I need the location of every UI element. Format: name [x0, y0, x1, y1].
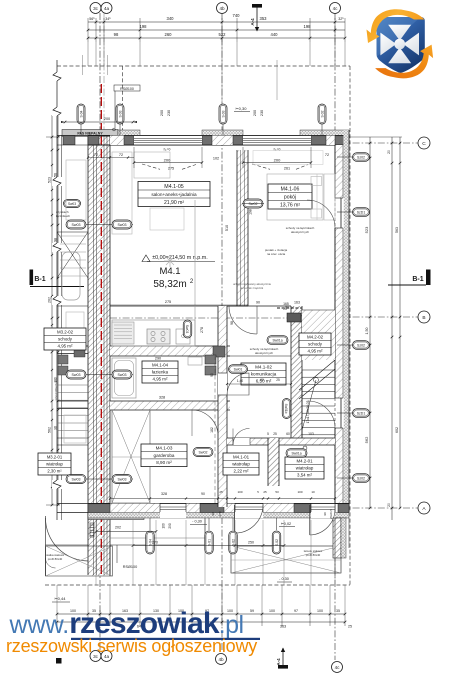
svg-text:98: 98 — [114, 32, 119, 37]
extension lines plan->top chain — [87, 42, 89, 66]
wall above wiatrolap y438-445 — [227, 438, 335, 445]
svg-text:S-04: S-04 — [79, 110, 83, 117]
svg-text:profil 80x40: profil 80x40 — [48, 557, 63, 561]
svg-text:wiatrołap: wiatrołap — [296, 465, 314, 470]
room box M4.2-02 schody — [299, 333, 331, 355]
axis bubble C right — [418, 137, 430, 149]
svg-text:4c: 4c — [335, 665, 341, 670]
svg-text:102: 102 — [213, 157, 219, 161]
svg-text:270: 270 — [218, 511, 222, 516]
svg-text:200: 200 — [274, 158, 281, 163]
svg-text:pokój: pokój — [284, 194, 296, 200]
top dimension chain lines — [88, 21, 345, 23]
extension lines plan->bottom chain — [56, 585, 58, 610]
stairs diagonal rails — [299, 360, 335, 390]
svg-text:56⁵: 56⁵ — [89, 17, 95, 21]
svg-text:1,50: 1,50 — [365, 328, 369, 335]
svg-text:S-03: S-03 — [221, 110, 225, 117]
door arc komunikacja->wiatrolap — [233, 429, 250, 446]
svg-text:163: 163 — [294, 301, 300, 305]
dashed landing edge — [277, 307, 302, 309]
svg-text:17x17,88x26,03: 17x17,88x26,03 — [54, 379, 58, 401]
terrace divider wall right — [333, 518, 341, 558]
svg-text:S-02: S-02 — [231, 539, 235, 546]
room box M4.1-02 komunikacja — [241, 363, 286, 385]
svg-text:4c: 4c — [333, 6, 339, 11]
bottom wall pillars — [88, 504, 110, 513]
fridge — [112, 322, 134, 344]
left unit furniture light — [66, 160, 86, 220]
axis bubble 3c bottom — [90, 651, 101, 662]
svg-text:M4.1-05: M4.1-05 — [164, 184, 183, 190]
svg-text:łazienka: łazienka — [152, 369, 169, 374]
svg-text:M4.2-02: M4.2-02 — [307, 334, 324, 339]
bottom wall stipple strip outside — [88, 513, 349, 519]
svg-text:⌲0,44: ⌲0,44 — [55, 596, 67, 601]
terrace right with X — [231, 546, 341, 573]
svg-text:90: 90 — [323, 512, 327, 516]
svg-text:4,95 m²: 4,95 m² — [308, 348, 323, 353]
svg-text:M4.1-06: M4.1-06 — [281, 186, 300, 192]
svg-text:4,95 m²: 4,95 m² — [58, 343, 73, 348]
party wall hatched — [88, 136, 110, 576]
bottom exterior wall band — [88, 503, 349, 505]
svg-text:S-02: S-02 — [275, 539, 279, 546]
bottom entry door arcs — [234, 505, 236, 533]
Sw01 komunikacja — [229, 365, 248, 374]
svg-text:schody: schody — [58, 336, 73, 341]
section mark B-1 right — [426, 270, 431, 286]
left unit extra stadium — [64, 200, 81, 208]
svg-text:Sz02: Sz02 — [357, 155, 365, 159]
svg-text:100: 100 — [297, 490, 302, 494]
svg-text:182: 182 — [210, 427, 214, 433]
Sw01a stairs — [267, 336, 288, 345]
svg-text:198: 198 — [249, 209, 253, 215]
svg-text:35: 35 — [336, 609, 340, 613]
svg-text:90: 90 — [210, 373, 214, 377]
left unit fixtures — [58, 355, 68, 364]
svg-text:250: 250 — [248, 541, 254, 545]
Sw03 markers party wall — [66, 224, 133, 226]
right dimension chain — [369, 137, 371, 508]
svg-text:B: B — [422, 315, 425, 321]
black square marker bottom left — [56, 658, 62, 664]
svg-text:200: 200 — [164, 158, 171, 163]
svg-text:202: 202 — [48, 297, 52, 303]
kitchen sink — [176, 329, 190, 344]
room box M3.2-02 schody left — [44, 328, 86, 350]
svg-text:na szer. ościa: na szer. ościa — [267, 252, 286, 256]
svg-text:340: 340 — [167, 16, 175, 21]
door arc bathroom — [227, 373, 249, 395]
svg-text:łącznikach: łącznikach — [56, 214, 70, 218]
svg-text:202: 202 — [115, 526, 121, 530]
svg-text:90: 90 — [211, 512, 215, 516]
svg-text:13,76 m²: 13,76 m² — [280, 202, 300, 208]
svg-text:523: 523 — [48, 177, 52, 183]
room box M4.1-06 pokoj — [268, 184, 312, 209]
svg-text:4a: 4a — [104, 6, 110, 11]
kitchen counter edge vertical — [194, 200, 196, 346]
axis bubble 4b top — [217, 3, 228, 14]
svg-text:20x21,5: 20x21,5 — [329, 509, 333, 519]
svg-text:165: 165 — [283, 302, 289, 306]
axis 4b vertical dash-dot — [221, 13, 223, 650]
axis bubble 3c top — [90, 3, 101, 14]
svg-text:komunikacja: komunikacja — [251, 371, 277, 376]
svg-text:260: 260 — [165, 32, 173, 37]
svg-text:A-4: A-4 — [250, 18, 255, 26]
svg-text:B-1: B-1 — [34, 276, 45, 283]
svg-text:261: 261 — [284, 167, 290, 171]
svg-text:Sw03: Sw03 — [118, 477, 127, 481]
svg-text:510: 510 — [225, 225, 229, 231]
svg-text:3,54 m²: 3,54 m² — [297, 472, 312, 477]
svg-text:198: 198 — [304, 24, 312, 29]
svg-text:25: 25 — [276, 378, 280, 382]
room box M4.1-04 lazienka — [142, 361, 178, 383]
svg-text:522: 522 — [219, 32, 227, 37]
svg-text:SzD1: SzD1 — [357, 210, 366, 214]
room box M3.2-01 wiatrolap left — [38, 453, 71, 475]
watermark underline — [71, 638, 260, 640]
svg-text:90: 90 — [256, 301, 260, 305]
svg-text:⌲0,30: ⌲0,30 — [236, 106, 248, 111]
axis B horizontal — [340, 316, 418, 318]
svg-text:3c: 3c — [93, 6, 99, 11]
svg-text:290: 290 — [168, 523, 172, 529]
top wall windows — [134, 136, 202, 146]
room box M4.1-05 salon — [138, 182, 210, 207]
svg-text:Sw02: Sw02 — [249, 202, 258, 206]
svg-text:C: C — [422, 141, 426, 147]
left unit stair diagonals — [57, 232, 88, 278]
svg-text:Sw01a: Sw01a — [291, 451, 301, 455]
top exterior wall band — [88, 135, 349, 137]
svg-text:M4.1-03: M4.1-03 — [156, 446, 173, 451]
svg-text:4b: 4b — [218, 657, 224, 662]
door opening bath — [218, 373, 227, 395]
svg-text:17x17,88x26,03: 17x17,88x26,03 — [306, 400, 310, 423]
dashed partition line x215 — [214, 356, 216, 503]
room box M4.2-01 wiatrolap — [285, 457, 324, 479]
svg-text:garderoba: garderoba — [154, 453, 175, 458]
door arc garderoba — [192, 410, 218, 436]
svg-text:2,22 m²: 2,22 m² — [234, 468, 249, 473]
wall stairs/komunikacja x291-302 — [291, 306, 302, 438]
svg-text:rzeszowski serwis ogłoszeniowy: rzeszowski serwis ogłoszeniowy — [6, 636, 257, 656]
right wall Sz markers — [337, 156, 353, 158]
washbasin — [188, 357, 202, 365]
svg-text:100: 100 — [317, 609, 323, 613]
right wall door openings — [335, 198, 344, 228]
svg-text:M3.2-02: M3.2-02 — [57, 329, 74, 334]
svg-text:25: 25 — [263, 490, 267, 494]
orange swoosh top — [367, 9, 425, 43]
svg-text:198: 198 — [140, 24, 148, 29]
svg-text:59: 59 — [250, 609, 254, 613]
svg-text:2,30 m²: 2,30 m² — [47, 468, 62, 473]
section mark B-1 left — [30, 270, 34, 286]
svg-text:328: 328 — [161, 492, 167, 496]
svg-text:Sw03: Sw03 — [118, 373, 127, 377]
roof overhang dashed outline — [57, 65, 350, 67]
salon table — [150, 208, 184, 230]
svg-text:Sw02: Sw02 — [199, 450, 208, 454]
svg-text:10: 10 — [311, 490, 315, 494]
svg-text:53: 53 — [275, 490, 279, 494]
roof dashed inner vertical left — [122, 66, 124, 132]
door arc wiatrolap M4.2 — [308, 401, 335, 428]
svg-text:60: 60 — [260, 378, 264, 382]
axis A horizontal — [340, 507, 418, 509]
bed pokoj — [267, 174, 323, 220]
svg-text:20: 20 — [387, 503, 391, 507]
svg-text:290: 290 — [155, 357, 161, 361]
Sw01a wiatrolap — [286, 449, 307, 458]
svg-text:Sw03: Sw03 — [72, 477, 81, 481]
red fire-wall line — [100, 84, 102, 575]
svg-text:60: 60 — [286, 432, 290, 436]
axis 3c/4a vertical dash-dot — [99, 13, 101, 652]
svg-text:200: 200 — [253, 110, 257, 116]
svg-text:S-02: S-02 — [320, 110, 324, 117]
svg-text:563: 563 — [395, 227, 399, 233]
svg-text:740: 740 — [233, 13, 241, 18]
svg-text:Sw01b: Sw01b — [284, 404, 288, 414]
door arc komunikacja->salon — [229, 306, 257, 334]
svg-text:562: 562 — [364, 436, 369, 443]
wall kitchen/bath y346-356 — [110, 346, 230, 356]
axis bubble 4a bottom — [101, 651, 112, 662]
svg-text:±0,00=214,50 m n.p.m.: ±0,00=214,50 m n.p.m. — [152, 255, 208, 261]
svg-text:schody: schody — [308, 341, 323, 346]
svg-text:Sw03: Sw03 — [68, 202, 76, 206]
garderoba closet with X — [112, 410, 150, 503]
left unit west boundary (broken) — [56, 60, 58, 520]
svg-text:90: 90 — [201, 492, 205, 496]
top wall pillars — [88, 136, 99, 145]
svg-text:wiatrołap: wiatrołap — [46, 461, 63, 466]
svg-text:B-1: B-1 — [412, 276, 423, 283]
rzeszowiak logo — [367, 9, 434, 78]
closet pokoj top — [253, 151, 323, 165]
salon wardrobe — [112, 152, 132, 234]
Sw02 marker on salon wall — [243, 199, 263, 208]
svg-text:Sw01: Sw01 — [234, 367, 243, 371]
left unit tub — [62, 252, 80, 300]
svg-text:- 0,30: - 0,30 — [192, 520, 202, 524]
bottom S markers vertical — [146, 531, 155, 554]
wardrobe pokoj — [324, 174, 335, 220]
svg-text:21,90 m²: 21,90 m² — [164, 200, 184, 206]
left terrace west edge — [45, 516, 47, 576]
stairs upper flight hatch — [302, 310, 335, 360]
top S markers vertical — [77, 104, 85, 124]
svg-text:275: 275 — [165, 300, 171, 304]
svg-text:M4.1: M4.1 — [159, 266, 180, 277]
axis bubble 4c bottom — [332, 662, 343, 673]
door arc pokoj (right wall) — [307, 200, 335, 228]
svg-text:akustycznych: akustycznych — [291, 230, 309, 234]
svg-text:602: 602 — [395, 427, 399, 433]
orange swoosh bottom — [375, 45, 433, 79]
svg-text:4b: 4b — [219, 6, 225, 11]
svg-text:328: 328 — [159, 396, 165, 400]
blue shield — [377, 17, 425, 73]
svg-text:98: 98 — [230, 321, 234, 325]
svg-text:Sw01a: Sw01a — [272, 338, 282, 342]
svg-text:25: 25 — [273, 432, 277, 436]
kitchen stove — [147, 329, 170, 344]
svg-text:M4.1-02: M4.1-02 — [255, 364, 272, 369]
svg-text:Sw03: Sw03 — [185, 325, 189, 334]
axis C horizontal — [340, 142, 418, 144]
svg-text:S-01: S-01 — [207, 539, 211, 546]
left terrace X — [46, 546, 113, 576]
svg-text:SzD1: SzD1 — [357, 411, 366, 415]
axis bubble 4c top — [330, 3, 341, 14]
RS100 label top — [114, 85, 140, 91]
svg-text:M4.2-01: M4.2-01 — [296, 458, 313, 463]
svg-text:aż uzysk z łącznik: aż uzysk z łącznik — [241, 286, 264, 290]
svg-text:1,40: 1,40 — [237, 379, 243, 383]
wall bath/garderoba y401-410 — [110, 401, 230, 410]
svg-text:hₚ=0: hₚ=0 — [274, 148, 281, 152]
section mark A-4 top — [252, 4, 262, 8]
svg-text:440: 440 — [271, 32, 279, 37]
kitchen counter — [112, 320, 195, 346]
svg-text:200: 200 — [160, 110, 164, 116]
svg-text:97: 97 — [294, 609, 298, 613]
svg-text:230: 230 — [167, 110, 171, 116]
svg-text:25: 25 — [348, 625, 352, 629]
Sw01b vertical stairs — [282, 399, 291, 419]
svg-text:RSØ100: RSØ100 — [120, 87, 134, 91]
svg-text:103: 103 — [308, 432, 314, 436]
svg-text:523: 523 — [364, 226, 369, 233]
svg-text:230: 230 — [260, 110, 264, 116]
left unit lower stair treads — [58, 384, 88, 386]
wall bath/komunikacja vertical x218-227 — [218, 306, 227, 507]
svg-text:58,32m: 58,32m — [153, 279, 186, 290]
svg-text:25: 25 — [219, 490, 223, 494]
wall between wiatrolaps x268-279 — [268, 438, 279, 486]
svg-text:A-4: A-4 — [276, 658, 281, 666]
svg-text:200: 200 — [104, 117, 110, 121]
svg-text:72: 72 — [119, 153, 123, 157]
svg-text:Sw03: Sw03 — [118, 223, 127, 227]
big left terrace arc — [46, 518, 89, 561]
axis bubble 4b bottom — [216, 654, 227, 665]
lamp X mark — [164, 255, 176, 267]
wall below salon horizontal y306 — [110, 305, 248, 307]
left dimension chain — [51, 115, 53, 505]
svg-text:5: 5 — [267, 432, 269, 436]
bathtub — [112, 358, 136, 398]
svg-text:Sw03: Sw03 — [72, 223, 81, 227]
svg-text:100: 100 — [237, 490, 242, 494]
terrace outlines — [46, 544, 89, 546]
svg-text:S-03: S-03 — [118, 110, 122, 117]
bottom dimension chain lines — [57, 613, 345, 615]
right exterior wall hatched+stippled — [335, 145, 343, 503]
maltese cross — [380, 25, 419, 63]
svg-text:profil 80x40: profil 80x40 — [306, 553, 321, 557]
left unit interior walls — [57, 135, 88, 137]
axis bubble A right — [418, 502, 430, 514]
svg-text:8,90 m²: 8,90 m² — [156, 460, 172, 465]
svg-text:100: 100 — [269, 609, 275, 613]
komunikacja/salon boundary line y306->318 area — [227, 305, 291, 307]
top wall stipple strips outside — [118, 130, 140, 135]
svg-text:72: 72 — [94, 153, 98, 157]
svg-text:363: 363 — [280, 625, 286, 629]
svg-text:72: 72 — [325, 153, 329, 157]
svg-text:Sz02: Sz02 — [357, 343, 365, 347]
svg-text:wiatrołap: wiatrołap — [232, 461, 250, 466]
PAS NIEPALNY band top — [62, 130, 118, 137]
svg-text:34⁵: 34⁵ — [105, 17, 111, 21]
svg-text:M3.2-01: M3.2-01 — [47, 454, 63, 459]
svg-text:akustycznych: akustycznych — [255, 351, 273, 355]
ladder marks party wall bottom — [90, 523, 94, 537]
axis bubble 4a top — [101, 3, 112, 14]
axis 4c vertical dash-dot — [334, 13, 336, 660]
room box M4.1-01 wiatrolap — [223, 453, 259, 475]
PAS NIEPALNY band bottom — [88, 513, 144, 520]
bottom wall door openings — [160, 504, 186, 519]
svg-text:275: 275 — [168, 167, 174, 171]
svg-text:M4.1-04: M4.1-04 — [152, 362, 169, 367]
svg-text:278: 278 — [200, 327, 204, 333]
Sw03 vertical kitchen — [183, 320, 192, 338]
svg-text:salon+aneks+jadalnia: salon+aneks+jadalnia — [151, 192, 197, 197]
window opening dashed V marks — [142, 164, 160, 169]
stairs treads — [302, 369, 335, 371]
svg-text:270: 270 — [152, 541, 158, 545]
svg-text:562: 562 — [48, 427, 52, 433]
wall salon/pokoj vertical — [237, 150, 248, 306]
svg-text:Sz02: Sz02 — [357, 476, 365, 480]
svg-text:100: 100 — [162, 523, 166, 529]
svg-text:20: 20 — [387, 150, 391, 154]
axis bubble B right — [418, 311, 430, 323]
svg-text:353: 353 — [260, 16, 268, 21]
section mark A-4 bottom — [278, 665, 288, 669]
svg-text:4,95 m²: 4,95 m² — [153, 376, 168, 381]
svg-text:RSØ100: RSØ100 — [123, 565, 138, 569]
bathroom fixtures dark — [213, 346, 225, 357]
terrace steps right — [334, 518, 336, 576]
svg-text:⌲0,02: ⌲0,02 — [281, 522, 291, 526]
Sw02 garderoba — [193, 448, 213, 457]
svg-text:32⁵: 32⁵ — [338, 17, 344, 21]
room box M4.1-03 garderoba — [141, 444, 187, 467]
svg-text:hₚ=0: hₚ=0 — [164, 148, 171, 152]
svg-text:Sw03: Sw03 — [72, 373, 81, 377]
svg-text:M4.1-01: M4.1-01 — [233, 454, 250, 459]
